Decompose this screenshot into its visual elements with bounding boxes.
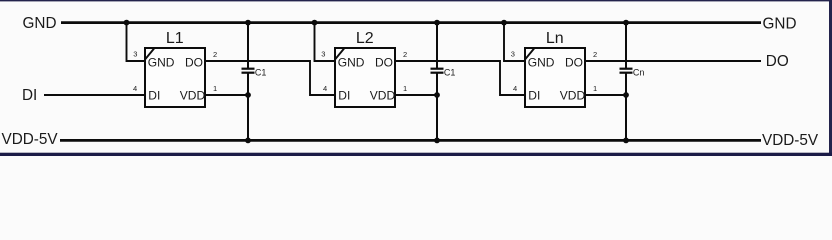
svg-text:VDD: VDD xyxy=(370,88,396,102)
junction C1b / L2 VDD xyxy=(434,92,440,98)
wire L2 VDD pin 1 to C1b column xyxy=(395,94,437,96)
page right border xyxy=(829,0,832,156)
svg-text:GND: GND xyxy=(23,15,57,32)
svg-text:4: 4 xyxy=(133,84,137,93)
svg-text:DO: DO xyxy=(375,55,393,69)
wire C1 bottom lead to VDD bus xyxy=(247,73,249,141)
junction GND bus / Cn xyxy=(623,20,629,26)
svg-text:3: 3 xyxy=(321,50,325,59)
wire L1 VDD pin 1 to C1 column xyxy=(205,94,248,96)
svg-text:C1: C1 xyxy=(255,67,267,77)
svg-text:DI: DI xyxy=(148,88,160,102)
svg-text:DO: DO xyxy=(185,55,203,69)
junction GND bus / Ln pin3 drop xyxy=(501,20,507,26)
junction C1 / L1 VDD xyxy=(245,92,251,98)
svg-text:GND: GND xyxy=(148,55,175,69)
wire Cn top lead from GND bus xyxy=(625,23,627,69)
svg-text:DI: DI xyxy=(528,88,540,102)
svg-text:2: 2 xyxy=(403,50,407,59)
svg-text:Ln: Ln xyxy=(546,30,564,47)
svg-text:GND: GND xyxy=(763,16,797,33)
svg-text:GND: GND xyxy=(528,55,555,69)
svg-text:DO: DO xyxy=(565,55,583,69)
junction Cn / Ln VDD xyxy=(623,92,629,98)
wire VDD-5V bus xyxy=(60,139,761,142)
wire Ln VDD pin 1 to Cn column xyxy=(585,94,626,96)
wire C1b top lead from GND bus xyxy=(436,23,438,69)
svg-text:VDD-5V: VDD-5V xyxy=(2,131,59,148)
wire C1 top lead from GND bus xyxy=(247,23,249,69)
wire GND drop to L2 pin 3 xyxy=(315,23,336,61)
wire C1b bottom lead to VDD bus xyxy=(436,73,438,141)
svg-text:DI: DI xyxy=(338,88,350,102)
wire GND bus xyxy=(61,21,761,24)
svg-text:VDD-5V: VDD-5V xyxy=(762,132,819,149)
svg-text:L1: L1 xyxy=(166,30,184,47)
svg-text:DO: DO xyxy=(766,53,789,70)
svg-text:Cn: Cn xyxy=(633,67,645,77)
wire L2 DO to step-down xyxy=(395,61,525,95)
junction C1b / VDD bus xyxy=(434,138,440,144)
capacitor C1 (second) xyxy=(431,67,456,77)
svg-text:3: 3 xyxy=(133,50,137,59)
svg-text:4: 4 xyxy=(513,84,517,93)
IC L1 xyxy=(145,30,205,107)
svg-text:GND: GND xyxy=(338,55,365,69)
junction Cn / VDD bus xyxy=(623,138,629,144)
wire GND drop to Ln pin 3 xyxy=(504,23,525,61)
IC L2 xyxy=(335,30,395,107)
junction GND bus / C1b xyxy=(434,20,440,26)
junction GND bus / C1 xyxy=(245,20,251,26)
wire L1 DO to step-down xyxy=(205,61,335,95)
svg-text:L2: L2 xyxy=(356,30,374,47)
svg-text:1: 1 xyxy=(403,84,407,93)
page top border xyxy=(0,0,832,1)
svg-text:1: 1 xyxy=(593,84,597,93)
svg-text:VDD: VDD xyxy=(180,88,206,102)
svg-text:1: 1 xyxy=(213,84,217,93)
svg-text:2: 2 xyxy=(213,50,217,59)
capacitor Cn xyxy=(620,67,645,77)
junction GND bus / L2 pin3 drop xyxy=(312,20,318,26)
svg-text:4: 4 xyxy=(323,84,327,93)
svg-text:3: 3 xyxy=(511,50,515,59)
wire Cn bottom lead to VDD bus xyxy=(625,73,627,141)
wire Ln DO output to right edge xyxy=(585,60,761,62)
junction C1 / VDD bus xyxy=(245,138,251,144)
svg-text:DI: DI xyxy=(22,87,37,104)
wire DI to L1 pin 4 xyxy=(44,94,146,96)
IC Ln xyxy=(525,30,585,107)
svg-text:VDD: VDD xyxy=(560,88,586,102)
junction GND bus / L1 pin3 drop xyxy=(124,20,130,26)
svg-text:C1: C1 xyxy=(444,67,456,77)
capacitor C1 xyxy=(242,67,267,77)
svg-text:2: 2 xyxy=(593,50,597,59)
page bottom bar xyxy=(0,153,832,156)
wire GND drop to L1 pin 3 xyxy=(127,23,146,61)
